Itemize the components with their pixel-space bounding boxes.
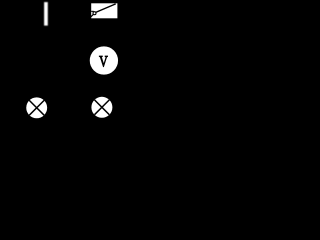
voltmeter U1 (circle with serif V) [90,46,118,74]
switch box background [91,3,117,18]
cell long plate (battery electrode) [44,2,48,26]
switch lever [96,4,116,13]
lamp L2 (circle with X) [91,97,112,118]
voltmeter letter V [99,56,107,66]
switch pivot ring [93,12,96,15]
voltmeter circle [90,46,118,74]
lamp L1 (circle with X) [26,97,47,118]
switch left terminal wire [91,10,94,12]
switch S1 (open switch in white box) [90,3,117,18]
switch lever tail [90,14,93,17]
